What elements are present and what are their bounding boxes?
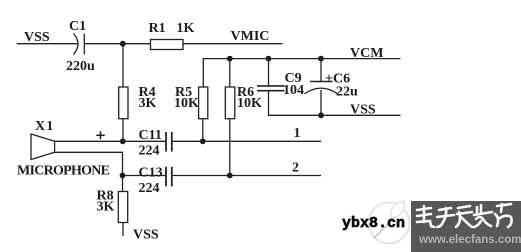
svg-text:22u: 22u bbox=[336, 85, 358, 100]
svg-text:10K: 10K bbox=[174, 96, 199, 111]
microphone X1 body bbox=[31, 134, 55, 160]
junction node C6 top on VCM rail bbox=[318, 56, 324, 62]
watermark logo box elecfans bbox=[342, 201, 521, 252]
capacitor C6 bbox=[320, 59, 322, 82]
junction node R5 bottom on line 1 bbox=[200, 138, 206, 144]
svg-text:R1: R1 bbox=[149, 21, 166, 36]
junction node mic/C13 bbox=[120, 173, 126, 179]
svg-text:C1: C1 bbox=[69, 19, 86, 34]
capacitor C9 bbox=[268, 59, 270, 86]
svg-text:VCM: VCM bbox=[350, 46, 383, 61]
svg-text:220u: 220u bbox=[66, 59, 95, 74]
wire mic bottom neck bbox=[55, 152, 123, 191]
svg-text:10K: 10K bbox=[237, 96, 262, 111]
polarity mark + bbox=[96, 131, 104, 139]
logo chinese glyph strokes (电子发烧友) bbox=[417, 204, 512, 227]
junction node on main wire at R4 top bbox=[120, 41, 126, 47]
svg-text:224: 224 bbox=[139, 181, 160, 196]
wire VSS rail bbox=[269, 92, 401, 116]
watermark circle logo bbox=[369, 203, 410, 244]
wire C1 to R1 bbox=[84, 43, 150, 45]
junction node C6 bottom on VSS rail bbox=[318, 112, 324, 118]
capacitor C11 bbox=[165, 132, 167, 152]
wire C13 branch bbox=[123, 175, 166, 177]
wire R1 to VMIC bbox=[183, 43, 283, 45]
junction node mic/C11/R4 bbox=[120, 138, 126, 144]
svg-text:VMIC: VMIC bbox=[231, 29, 270, 44]
wire VSS input to C1 bbox=[17, 43, 78, 45]
svg-text:224: 224 bbox=[139, 144, 160, 159]
capacitor C1 bbox=[74, 34, 79, 55]
svg-text:MICROPHONE: MICROPHONE bbox=[17, 164, 110, 179]
resistor R1 bbox=[151, 40, 184, 50]
junction node R6 bottom on line 2 bbox=[227, 173, 233, 179]
wire line 1 bbox=[173, 140, 321, 142]
resistor R6 bbox=[229, 59, 231, 87]
resistor R4 bbox=[122, 44, 124, 87]
wire line 2 bbox=[173, 175, 321, 177]
svg-text:2: 2 bbox=[292, 161, 299, 176]
resistor R8 bbox=[118, 192, 127, 223]
svg-text:VSS: VSS bbox=[350, 103, 376, 118]
svg-text:C13: C13 bbox=[139, 166, 163, 181]
svg-text:VSS: VSS bbox=[24, 30, 50, 45]
wire mic to C11 bbox=[55, 140, 166, 142]
junction node C9 top on VCM rail bbox=[266, 56, 272, 62]
wire VCM rail bbox=[203, 59, 400, 87]
svg-text:1: 1 bbox=[294, 126, 301, 141]
svg-text:104: 104 bbox=[283, 83, 304, 98]
svg-text:X1: X1 bbox=[35, 119, 55, 134]
capacitor C13 bbox=[165, 167, 167, 187]
svg-text:3K: 3K bbox=[97, 200, 115, 215]
svg-text:ybx8.cn: ybx8.cn bbox=[342, 215, 405, 232]
junction node R6 top on VCM rail bbox=[227, 56, 233, 62]
resistor R5 bbox=[199, 87, 208, 119]
watermark leaf bbox=[391, 201, 405, 218]
svg-text:1K: 1K bbox=[177, 21, 195, 36]
svg-text:C11: C11 bbox=[139, 128, 162, 143]
svg-text:www.elecfans.com: www.elecfans.com bbox=[418, 234, 521, 246]
svg-text:VSS: VSS bbox=[133, 228, 159, 243]
svg-text:3K: 3K bbox=[139, 96, 157, 111]
